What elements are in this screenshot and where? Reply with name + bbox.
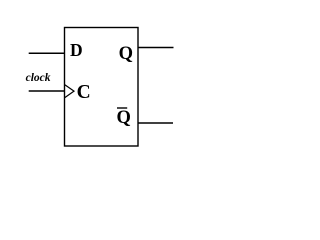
svg-text:Q: Q bbox=[119, 44, 133, 64]
svg-text:Q: Q bbox=[117, 108, 131, 128]
svg-text:clock: clock bbox=[26, 72, 51, 84]
svg-text:C: C bbox=[77, 82, 91, 103]
wire Q output bbox=[138, 47, 174, 49]
flip-flop body U1 bbox=[65, 28, 139, 147]
wire clock input bbox=[29, 90, 65, 92]
overline of Q-bar bbox=[117, 107, 127, 109]
svg-text:D: D bbox=[70, 40, 83, 60]
wire Q-bar output bbox=[138, 122, 173, 124]
wire D input bbox=[29, 52, 65, 54]
clock edge-trigger symbol bbox=[65, 85, 74, 98]
